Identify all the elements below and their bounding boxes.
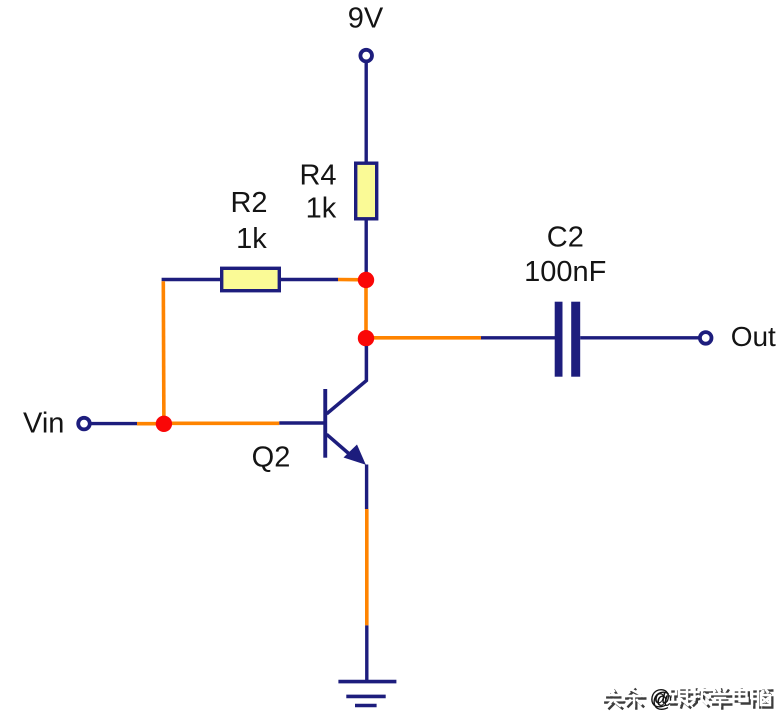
label Q2 bbox=[252, 441, 291, 473]
wire R4 to collector junction bbox=[365, 219, 368, 280]
terminal Out bbox=[700, 332, 712, 344]
ground bbox=[338, 682, 396, 706]
junction node base bbox=[156, 416, 172, 432]
watermark text bbox=[603, 687, 772, 713]
resistor R2 bbox=[222, 268, 280, 290]
wire C2 to Out bbox=[580, 336, 700, 339]
terminal Vin bbox=[78, 418, 90, 430]
wire emitter orange part bbox=[365, 509, 369, 625]
capacitor C2 right plate bbox=[571, 302, 580, 377]
wire Vin blue part bbox=[91, 422, 138, 425]
wire left of R2 bbox=[162, 278, 222, 281]
net label Vin bbox=[23, 408, 64, 440]
wire feedback vertical orange bbox=[162, 281, 166, 424]
wire output junction to C2 orange part bbox=[366, 336, 481, 340]
svg-text:R4: R4 bbox=[299, 160, 336, 192]
svg-text:Out: Out bbox=[731, 321, 776, 352]
junction node R2/R4 bbox=[358, 272, 374, 288]
wire to C2 blue part bbox=[481, 336, 556, 339]
label R4 bbox=[299, 160, 336, 192]
resistor R4 bbox=[356, 163, 377, 219]
transistor Q2 base bar bbox=[323, 389, 327, 458]
value label 100nF bbox=[524, 256, 606, 288]
transistor Q2 collector lead bbox=[327, 346, 367, 414]
wire base blue part bbox=[279, 421, 325, 424]
label C2 bbox=[547, 222, 584, 254]
svg-text:Q2: Q2 bbox=[252, 441, 291, 473]
wire collector junction to output junction orange bbox=[364, 280, 368, 338]
value label 1k of R4 bbox=[306, 193, 337, 225]
svg-text:Vin: Vin bbox=[23, 408, 64, 440]
net label Out bbox=[731, 321, 776, 352]
wire emitter blue part bbox=[365, 465, 368, 510]
terminal 9V bbox=[360, 50, 372, 62]
svg-text:R2: R2 bbox=[230, 187, 267, 219]
wire to ground blue part bbox=[365, 625, 368, 681]
svg-text:1k: 1k bbox=[306, 193, 337, 225]
wire base orange part bbox=[164, 421, 279, 425]
label R2 bbox=[230, 187, 267, 219]
junction node collector/output bbox=[358, 330, 374, 346]
svg-text:@: @ bbox=[650, 687, 671, 710]
wire right of R2 blue part bbox=[279, 278, 338, 281]
transistor Q2 emitter arrowhead bbox=[344, 445, 366, 465]
capacitor C2 left plate bbox=[555, 302, 563, 377]
wire Vin orange part bbox=[137, 422, 164, 426]
svg-text:1k: 1k bbox=[236, 223, 267, 255]
wire 9V to R4 bbox=[365, 62, 368, 164]
transistor Q2 emitter lead bbox=[327, 434, 351, 455]
wire right of R2 orange part bbox=[338, 278, 366, 282]
net label 9V bbox=[348, 3, 384, 35]
svg-text:C2: C2 bbox=[547, 222, 584, 254]
svg-text:100nF: 100nF bbox=[524, 256, 606, 288]
value label 1k of R2 bbox=[236, 223, 267, 255]
svg-text:9V: 9V bbox=[348, 3, 384, 35]
